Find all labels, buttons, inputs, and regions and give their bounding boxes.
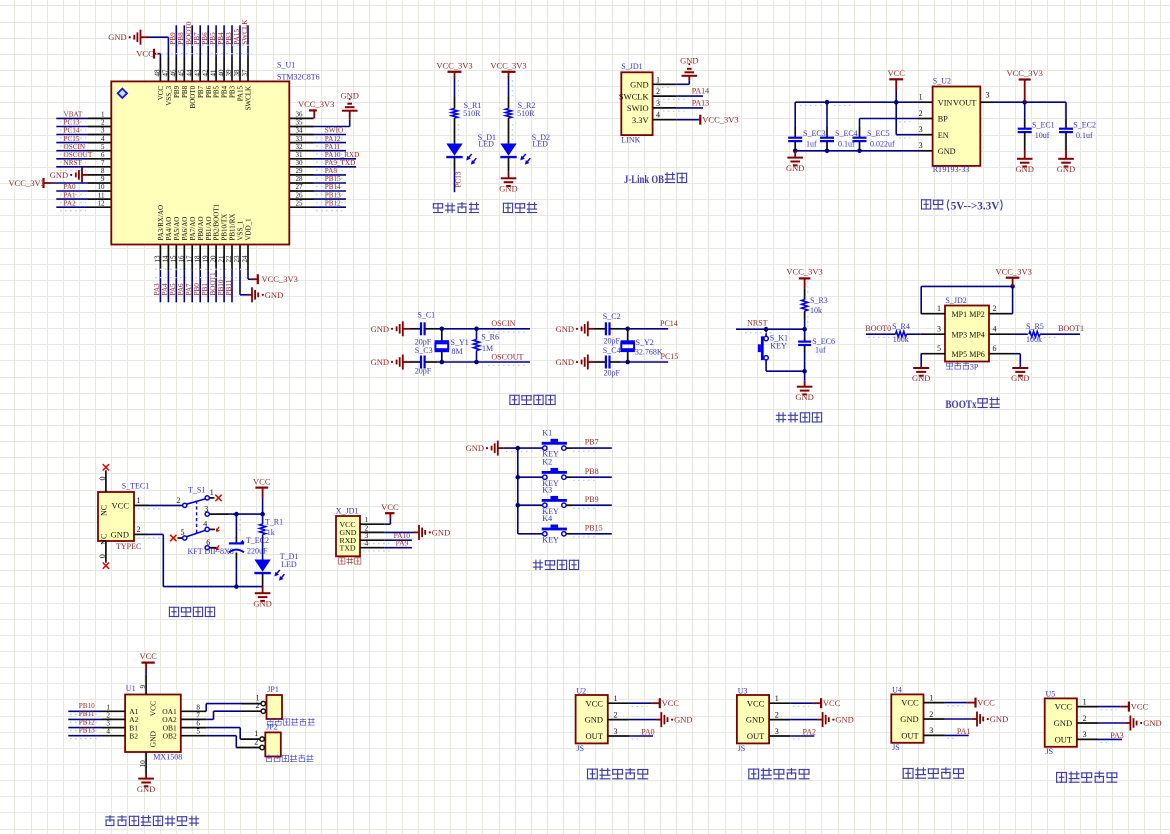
svg-text:39: 39 <box>225 69 233 77</box>
svg-text:MP5: MP5 <box>952 350 968 359</box>
svg-text:SWIO: SWIO <box>627 103 649 113</box>
svg-text:6: 6 <box>196 720 200 728</box>
svg-text:VCC_3V3: VCC_3V3 <box>9 178 45 188</box>
svg-text:VCC: VCC <box>747 698 765 708</box>
svg-text:1: 1 <box>614 694 618 703</box>
svg-text:GND: GND <box>912 373 930 383</box>
svg-text:2: 2 <box>614 710 618 719</box>
svg-text:OSCIN: OSCIN <box>64 143 86 151</box>
svg-text:5: 5 <box>101 143 105 151</box>
svg-text:SWCLK: SWCLK <box>619 91 650 101</box>
svg-text:K1: K1 <box>542 429 552 438</box>
svg-text:PA3: PA3 <box>153 283 161 296</box>
svg-text:VCC: VCC <box>136 49 154 59</box>
svg-text:2: 2 <box>106 711 110 719</box>
svg-text:BP: BP <box>938 115 948 124</box>
svg-text:5: 5 <box>181 528 185 537</box>
svg-text:PB8: PB8 <box>177 32 185 45</box>
svg-text:GND: GND <box>556 324 574 334</box>
svg-text:6: 6 <box>101 151 105 159</box>
svg-text:S_EC3: S_EC3 <box>803 129 826 138</box>
svg-text:PC14: PC14 <box>660 319 678 328</box>
svg-text:NRST: NRST <box>747 318 768 327</box>
svg-text:PB12: PB12 <box>325 199 341 207</box>
svg-text:RT9193-33: RT9193-33 <box>933 165 969 174</box>
svg-text:GND: GND <box>466 443 484 453</box>
svg-text:VCC_3V3: VCC_3V3 <box>298 99 334 109</box>
svg-text:S_Y1: S_Y1 <box>451 338 469 347</box>
svg-text:GND: GND <box>900 714 918 724</box>
svg-text:GND: GND <box>137 784 155 794</box>
svg-text:5V-->3.3V: 5V-->3.3V <box>951 199 1000 213</box>
svg-text:KEY: KEY <box>542 535 559 544</box>
svg-text:VCC_3V3: VCC_3V3 <box>262 274 298 284</box>
svg-text:JS: JS <box>1046 747 1054 756</box>
svg-text:PA2: PA2 <box>803 727 817 736</box>
svg-text:1: 1 <box>137 496 141 505</box>
svg-text:K2: K2 <box>542 458 552 467</box>
svg-text:33: 33 <box>296 135 304 143</box>
svg-text:29: 29 <box>296 167 304 175</box>
svg-text:VCC: VCC <box>586 698 604 708</box>
svg-text:GND: GND <box>149 730 158 747</box>
svg-text:JP2: JP2 <box>266 722 278 731</box>
svg-text:220uF: 220uF <box>247 546 268 555</box>
svg-text:JP1: JP1 <box>267 685 279 694</box>
svg-text:38: 38 <box>233 69 241 77</box>
svg-text:LED: LED <box>532 139 548 148</box>
svg-text:PB10/TX: PB10/TX <box>221 214 229 241</box>
svg-text:PA1: PA1 <box>957 727 971 736</box>
svg-text:1: 1 <box>775 694 779 703</box>
svg-text:TYPEC: TYPEC <box>116 542 141 551</box>
svg-text:1: 1 <box>101 111 105 119</box>
svg-text:MP6: MP6 <box>969 350 985 359</box>
svg-text:OSCOUT: OSCOUT <box>491 352 523 361</box>
svg-text:PB1: PB1 <box>201 283 209 296</box>
svg-text:VCC: VCC <box>1131 702 1149 712</box>
svg-text:BOOT0: BOOT0 <box>185 21 193 45</box>
svg-text:13: 13 <box>154 255 162 263</box>
svg-text:26: 26 <box>296 191 304 199</box>
svg-text:PC13: PC13 <box>64 119 80 127</box>
svg-text:VSS_3: VSS_3 <box>165 85 173 105</box>
svg-text:3: 3 <box>204 504 208 513</box>
svg-text:PB9: PB9 <box>173 85 181 98</box>
svg-text:5: 5 <box>196 728 200 736</box>
svg-text:VDD_1: VDD_1 <box>245 218 253 241</box>
svg-text:27: 27 <box>296 183 304 191</box>
svg-text:24: 24 <box>241 255 249 263</box>
svg-text:PA1: PA1 <box>64 191 77 199</box>
svg-text:VIN: VIN <box>938 98 953 107</box>
svg-text:3P: 3P <box>970 363 979 372</box>
svg-text:VCC_3V3: VCC_3V3 <box>786 266 822 276</box>
svg-text:0: 0 <box>98 477 107 481</box>
svg-text:6: 6 <box>993 344 997 353</box>
svg-text:SWCLK: SWCLK <box>245 86 253 111</box>
svg-text:36: 36 <box>296 111 304 119</box>
svg-text:BOOT1: BOOT1 <box>1058 324 1084 333</box>
svg-text:S_R3: S_R3 <box>810 296 828 305</box>
svg-text:LED: LED <box>478 139 494 148</box>
svg-text:BOOT0: BOOT0 <box>865 324 891 333</box>
svg-text:3.3V: 3.3V <box>632 115 650 125</box>
svg-text:GND: GND <box>938 147 956 156</box>
svg-text:MP1: MP1 <box>952 310 968 319</box>
svg-text:VCC: VCC <box>112 500 130 510</box>
svg-text:VCC_3V3: VCC_3V3 <box>996 267 1032 277</box>
svg-text:PB8: PB8 <box>181 85 189 98</box>
svg-text:VCC: VCC <box>823 698 841 708</box>
svg-text:23: 23 <box>233 255 241 263</box>
svg-text:T_S1: T_S1 <box>188 485 205 494</box>
svg-text:PA9_TXD: PA9_TXD <box>325 159 356 167</box>
svg-text:PA3/RX/AO: PA3/RX/AO <box>157 205 165 241</box>
svg-text:NC: NC <box>100 534 109 545</box>
svg-text:GND: GND <box>786 163 804 173</box>
svg-text:14: 14 <box>162 255 170 263</box>
svg-text:42: 42 <box>201 69 209 77</box>
svg-text:VCC: VCC <box>1055 702 1073 712</box>
svg-text:31: 31 <box>296 151 304 159</box>
svg-text:12: 12 <box>98 199 106 207</box>
svg-text:PB5: PB5 <box>213 85 221 98</box>
svg-text:U5: U5 <box>1046 690 1056 699</box>
svg-text:3: 3 <box>986 91 990 100</box>
svg-text:GND: GND <box>265 290 283 300</box>
svg-text:NRST: NRST <box>64 159 83 167</box>
svg-text:VCC: VCC <box>887 68 905 78</box>
svg-text:PA0: PA0 <box>64 183 77 191</box>
svg-text:47: 47 <box>162 69 170 77</box>
svg-text:VSS_1: VSS_1 <box>237 220 245 240</box>
svg-text:PA7: PA7 <box>185 283 193 296</box>
svg-text:BOOT0: BOOT0 <box>189 85 197 108</box>
svg-text:PA14: PA14 <box>692 87 710 96</box>
svg-text:28: 28 <box>296 175 304 183</box>
svg-text:PA3: PA3 <box>1110 731 1124 740</box>
svg-text:4: 4 <box>365 539 369 548</box>
svg-text:KEY: KEY <box>770 341 787 350</box>
svg-text:K3: K3 <box>542 486 552 495</box>
svg-text:PB10: PB10 <box>79 702 95 710</box>
svg-text:GND: GND <box>253 598 271 608</box>
svg-text:GND: GND <box>585 715 603 725</box>
svg-text:21: 21 <box>217 255 225 263</box>
svg-text:PA15: PA15 <box>237 85 245 101</box>
svg-text:1uf: 1uf <box>806 140 817 149</box>
svg-text:2: 2 <box>929 710 933 719</box>
svg-text:3: 3 <box>1083 730 1087 739</box>
svg-text:2: 2 <box>1083 714 1087 723</box>
svg-text:SWCLK: SWCLK <box>241 19 249 45</box>
svg-text:PB10: PB10 <box>217 279 225 295</box>
svg-text:PB2/BOOT1: PB2/BOOT1 <box>213 203 221 240</box>
svg-text:OUT: OUT <box>747 731 765 741</box>
svg-text:0: 0 <box>98 554 107 558</box>
svg-text:BOOTx: BOOTx <box>945 397 976 411</box>
svg-text:100k: 100k <box>1026 335 1042 344</box>
svg-text:S_EC2: S_EC2 <box>1073 121 1096 130</box>
svg-text:4: 4 <box>203 519 207 528</box>
svg-text:GND: GND <box>108 32 126 42</box>
svg-text:8: 8 <box>101 167 105 175</box>
svg-text:7: 7 <box>196 711 200 719</box>
svg-text:43: 43 <box>193 69 201 77</box>
svg-text:PB9: PB9 <box>585 495 599 504</box>
svg-text:25: 25 <box>296 199 304 207</box>
svg-text:GND: GND <box>680 56 698 66</box>
svg-text:S_TEC1: S_TEC1 <box>122 482 150 491</box>
svg-text:EN: EN <box>938 131 949 140</box>
svg-text:3: 3 <box>101 127 105 135</box>
svg-text:PA8: PA8 <box>325 167 338 175</box>
svg-text:PB0: PB0 <box>193 283 201 296</box>
svg-text:1: 1 <box>106 703 110 711</box>
svg-text:17: 17 <box>185 255 193 263</box>
svg-text:10: 10 <box>139 760 147 768</box>
svg-text:PB7: PB7 <box>197 85 205 98</box>
svg-text:0.1uf: 0.1uf <box>838 140 855 149</box>
svg-text:PA6/AO: PA6/AO <box>181 217 189 241</box>
svg-text:48: 48 <box>154 69 162 77</box>
svg-text:2: 2 <box>101 119 105 127</box>
svg-text:S_JD2: S_JD2 <box>945 296 966 305</box>
svg-text:18: 18 <box>193 255 201 263</box>
svg-text:GND: GND <box>795 392 813 402</box>
svg-text:PB11: PB11 <box>225 279 233 295</box>
svg-text:4: 4 <box>106 728 110 736</box>
svg-text:PB12: PB12 <box>79 718 95 726</box>
svg-text:GND: GND <box>1015 164 1033 174</box>
svg-text:0.022uf: 0.022uf <box>870 140 895 149</box>
svg-text:U3: U3 <box>738 686 748 695</box>
svg-text:20pF: 20pF <box>604 336 621 345</box>
svg-text:0.1uf: 0.1uf <box>1076 131 1093 140</box>
svg-text:TXD: TXD <box>340 544 356 553</box>
svg-text:S_U2: S_U2 <box>933 77 951 86</box>
svg-text:PA10_RXD: PA10_RXD <box>325 151 359 159</box>
svg-text:10: 10 <box>98 183 106 191</box>
svg-text:2: 2 <box>256 701 260 710</box>
svg-text:OUT: OUT <box>586 731 604 741</box>
svg-text:PB3: PB3 <box>229 85 237 98</box>
svg-text:VCC: VCC <box>253 477 271 487</box>
svg-text:510R: 510R <box>463 109 481 118</box>
svg-text:GND: GND <box>556 357 574 367</box>
svg-text:PB15: PB15 <box>585 523 603 532</box>
svg-text:4: 4 <box>101 135 105 143</box>
svg-text:3: 3 <box>656 99 660 108</box>
svg-text:GND: GND <box>630 80 648 90</box>
svg-text:PB8: PB8 <box>585 467 599 476</box>
svg-text:PA4/AO: PA4/AO <box>165 217 173 241</box>
svg-text:PB11/RX: PB11/RX <box>229 214 237 241</box>
svg-text:MP2: MP2 <box>969 310 985 319</box>
svg-text:VCC_3V3: VCC_3V3 <box>436 60 472 70</box>
svg-text:GND: GND <box>1143 718 1161 728</box>
svg-text:PA7/AO: PA7/AO <box>189 217 197 241</box>
svg-text:8: 8 <box>196 703 200 711</box>
svg-text:OB2: OB2 <box>163 732 177 741</box>
svg-text:9: 9 <box>101 175 105 183</box>
svg-text:MP3: MP3 <box>952 331 968 340</box>
svg-text:510R: 510R <box>517 109 535 118</box>
svg-text:T_EC2: T_EC2 <box>246 536 269 545</box>
svg-text:1: 1 <box>1083 697 1087 706</box>
svg-text:PA5/AO: PA5/AO <box>173 217 181 241</box>
svg-text:3: 3 <box>919 141 923 150</box>
svg-text:NC: NC <box>100 505 109 516</box>
svg-text:PB0/AO: PB0/AO <box>197 216 205 240</box>
svg-text:VCC: VCC <box>977 698 995 708</box>
svg-text:S_EC5: S_EC5 <box>867 129 890 138</box>
svg-text:10k: 10k <box>810 306 822 315</box>
svg-text:PB4: PB4 <box>217 32 225 45</box>
svg-text:2: 2 <box>775 710 779 719</box>
svg-text:VCC_3V3: VCC_3V3 <box>1007 68 1043 78</box>
svg-text:STM32C8T6: STM32C8T6 <box>277 73 320 82</box>
svg-text:PA13: PA13 <box>692 98 710 107</box>
svg-text:GND: GND <box>746 715 764 725</box>
svg-text:16: 16 <box>178 255 186 263</box>
svg-text:VOUT: VOUT <box>953 97 977 107</box>
svg-text:3: 3 <box>775 727 779 736</box>
svg-text:PB5: PB5 <box>209 32 217 45</box>
svg-text:PC15: PC15 <box>661 352 679 361</box>
svg-text:19: 19 <box>201 255 209 263</box>
svg-text:46: 46 <box>170 69 178 77</box>
svg-text:BOOT1: BOOT1 <box>209 272 217 296</box>
svg-text:PA11: PA11 <box>325 143 341 151</box>
svg-text:35: 35 <box>296 119 304 127</box>
svg-text:OSCOUT: OSCOUT <box>64 151 93 159</box>
svg-text:PA5: PA5 <box>169 283 177 296</box>
svg-text:100k: 100k <box>893 335 909 344</box>
svg-text:PB14: PB14 <box>325 183 341 191</box>
svg-text:VCC: VCC <box>149 701 158 716</box>
svg-text:PB7: PB7 <box>193 32 201 45</box>
svg-text:PA0: PA0 <box>641 727 655 736</box>
svg-text:1uf: 1uf <box>815 346 826 355</box>
svg-text:PB11: PB11 <box>79 710 95 718</box>
svg-text:GND: GND <box>499 184 517 194</box>
svg-text:1: 1 <box>656 75 660 84</box>
svg-text:S_C3: S_C3 <box>415 346 433 355</box>
svg-text:GND: GND <box>1011 373 1029 383</box>
svg-text:34: 34 <box>296 127 304 135</box>
svg-text:GND: GND <box>1057 164 1075 174</box>
svg-text:PC13: PC13 <box>455 171 463 187</box>
svg-text:SWIO: SWIO <box>325 127 343 135</box>
svg-text:MX1508: MX1508 <box>153 753 182 762</box>
svg-text:S_R6: S_R6 <box>481 332 499 341</box>
svg-text:K4: K4 <box>542 514 552 523</box>
svg-text:PB13: PB13 <box>79 727 95 735</box>
svg-text:32.768K: 32.768K <box>635 347 663 356</box>
svg-text:PB7: PB7 <box>585 438 599 447</box>
svg-text:GND: GND <box>111 529 129 539</box>
svg-text:GND: GND <box>371 357 389 367</box>
svg-text:S_R4: S_R4 <box>892 322 910 331</box>
svg-text:PA2: PA2 <box>64 199 77 207</box>
svg-text:3: 3 <box>937 325 941 334</box>
svg-text:2: 2 <box>137 525 141 534</box>
svg-text:3: 3 <box>929 726 933 735</box>
svg-text:40: 40 <box>217 69 225 77</box>
svg-text:30: 30 <box>296 159 304 167</box>
svg-text:PB13: PB13 <box>325 191 341 199</box>
svg-text:37: 37 <box>241 69 249 77</box>
svg-text:X_JD1: X_JD1 <box>336 507 359 516</box>
svg-text:2: 2 <box>919 109 923 118</box>
svg-text:1k: 1k <box>267 528 275 537</box>
svg-text:PB9: PB9 <box>169 32 177 45</box>
svg-text:2: 2 <box>993 304 997 313</box>
svg-text:3: 3 <box>106 720 110 728</box>
svg-text:20pF: 20pF <box>604 368 621 377</box>
svg-text:7: 7 <box>101 159 105 167</box>
svg-text:4: 4 <box>656 111 660 120</box>
svg-text:LINK: LINK <box>621 135 640 144</box>
svg-text:VCC: VCC <box>139 651 157 661</box>
svg-text:11: 11 <box>98 191 105 199</box>
svg-text:S_JD1: S_JD1 <box>621 62 642 71</box>
svg-text:3: 3 <box>919 125 923 134</box>
svg-text:2: 2 <box>177 496 181 505</box>
svg-text:VCC_3V3: VCC_3V3 <box>702 115 738 125</box>
svg-text:S_Y2: S_Y2 <box>636 338 654 347</box>
svg-text:U1: U1 <box>126 684 136 693</box>
svg-text:PB6: PB6 <box>201 32 209 45</box>
svg-text:GND: GND <box>990 714 1008 724</box>
svg-text:PA9: PA9 <box>396 539 409 548</box>
svg-text:GND: GND <box>835 715 853 725</box>
svg-text:U2: U2 <box>576 686 586 695</box>
svg-text:VCC: VCC <box>381 502 399 512</box>
svg-text:S_EC4: S_EC4 <box>835 129 858 138</box>
svg-text:3: 3 <box>614 727 618 736</box>
svg-text:GND: GND <box>340 91 358 101</box>
svg-text:LED: LED <box>281 560 297 569</box>
svg-text:MP4: MP4 <box>969 331 985 340</box>
svg-text:20: 20 <box>209 255 217 263</box>
svg-text:PA15: PA15 <box>233 29 241 45</box>
svg-text:PC14: PC14 <box>64 127 80 135</box>
svg-text:PB6: PB6 <box>205 85 213 98</box>
svg-text:1: 1 <box>929 693 933 702</box>
svg-text:1: 1 <box>937 304 941 313</box>
svg-text:OUT: OUT <box>1055 735 1073 745</box>
svg-text:S_U1: S_U1 <box>277 61 295 70</box>
svg-text:45: 45 <box>178 69 186 77</box>
svg-text:JS: JS <box>738 744 746 753</box>
svg-text:VBAT: VBAT <box>64 111 83 119</box>
svg-text:41: 41 <box>209 69 217 77</box>
svg-text:PB15: PB15 <box>325 175 341 183</box>
svg-text:OUT: OUT <box>901 731 919 741</box>
svg-text:VCC: VCC <box>662 698 680 708</box>
svg-text:GND: GND <box>371 324 389 334</box>
svg-text:GND: GND <box>1054 718 1072 728</box>
svg-text:4: 4 <box>993 325 997 334</box>
svg-text:20pF: 20pF <box>415 366 432 375</box>
svg-text:PC15: PC15 <box>64 135 80 143</box>
svg-text:T_R1: T_R1 <box>265 518 283 527</box>
svg-text:VCC: VCC <box>157 86 165 101</box>
svg-text:VCC_3V3: VCC_3V3 <box>490 60 526 70</box>
